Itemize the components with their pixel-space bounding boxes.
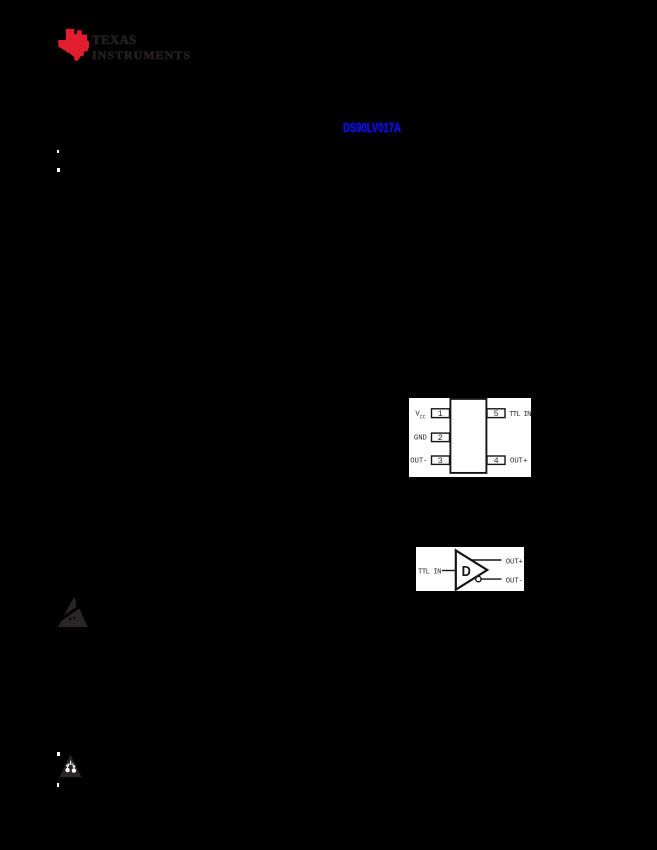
inversion bubble — [476, 576, 481, 581]
pin 5 box — [487, 409, 505, 418]
OUT- wire — [481, 578, 501, 580]
svg-text:OUT-: OUT- — [410, 458, 427, 466]
svg-text:4: 4 — [494, 456, 499, 466]
svg-text:OUT+: OUT+ — [510, 458, 527, 466]
svg-text:D: D — [462, 564, 471, 580]
pinout diagram white panel — [409, 398, 531, 477]
pin 3 box — [432, 456, 450, 464]
package body — [450, 399, 486, 473]
white bullet 1 — [57, 150, 59, 153]
TI logo red Texas map — [57, 28, 91, 62]
TI wordmark TEXAS — [92, 32, 136, 48]
input wire — [442, 570, 456, 572]
pin 2 box — [432, 433, 450, 442]
svg-text:2: 2 — [438, 433, 443, 443]
svg-text:1: 1 — [438, 409, 443, 419]
blue hyperlink part number DS90LV017A — [343, 121, 401, 135]
OUT+ wire — [471, 559, 502, 561]
svg-text:GND: GND — [414, 434, 427, 442]
driver triangle D — [456, 550, 487, 589]
pin 1 box — [432, 409, 450, 418]
svg-text:TTL IN: TTL IN — [509, 411, 531, 419]
pin 4 box — [487, 456, 505, 464]
white bullet 4 — [57, 783, 59, 787]
svg-text:OUT-: OUT- — [506, 577, 523, 585]
svg-text:3: 3 — [438, 456, 443, 466]
svg-text:5: 5 — [494, 409, 499, 419]
logic diagram white panel — [416, 547, 524, 591]
white bullet 2 — [57, 168, 60, 172]
legal scales triangle icon — [59, 754, 82, 778]
white bullet 3 — [57, 752, 60, 756]
svg-text:OUT+: OUT+ — [506, 558, 523, 566]
TI wordmark INSTRUMENTS — [92, 48, 191, 63]
svg-text:CC: CC — [420, 414, 426, 420]
svg-text:TTL IN: TTL IN — [418, 568, 441, 576]
ESD warning triangle icon — [57, 596, 89, 628]
